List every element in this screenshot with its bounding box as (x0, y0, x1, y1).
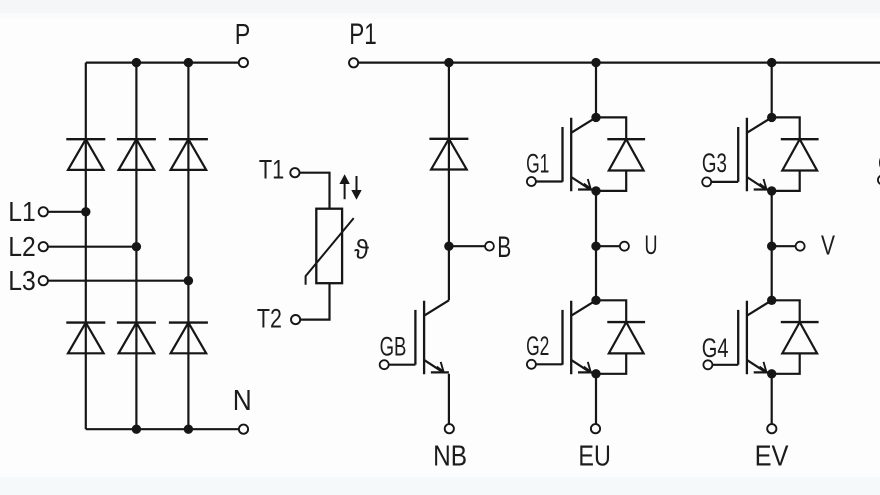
diode D6 (169, 323, 208, 354)
label L2 (8, 231, 36, 262)
junction node U (591, 242, 600, 251)
label EU (578, 440, 610, 472)
wire G4 gate (712, 364, 738, 366)
wire rectifier column 1 (85, 63, 87, 430)
label R1 theta (354, 234, 369, 264)
svg-text:P1: P1 (349, 18, 377, 51)
wire rectifier column 2 (135, 63, 137, 430)
wire G3 emitter to G4 collector (771, 191, 773, 300)
arrow down (351, 176, 361, 200)
label G2 (526, 331, 549, 361)
junction G4 collector (767, 296, 776, 305)
wire node U (596, 245, 620, 247)
wire rectifier column 3 (187, 63, 189, 430)
wire rail to G3 collector (771, 63, 773, 118)
label G4 (702, 333, 729, 363)
svg-text:B: B (497, 231, 511, 264)
junction G2 collector (591, 296, 600, 305)
transistor QB (415, 300, 449, 374)
svg-text:L1: L1 (8, 196, 36, 227)
label L3 (8, 265, 36, 296)
label G1 (526, 148, 549, 178)
diode D1F freewheel (596, 117, 645, 190)
terminal N (239, 425, 248, 434)
wire P rail (86, 61, 239, 63)
terminal G1 (527, 177, 536, 186)
label G5 (partial) (878, 148, 880, 178)
diode D1 (66, 139, 105, 170)
label T1 (259, 155, 284, 185)
svg-text:G4: G4 (702, 333, 729, 363)
junction top rail col2 (132, 58, 141, 67)
label P1 (349, 18, 377, 51)
terminal G5 (partial) (878, 175, 880, 184)
svg-text:G1: G1 (526, 148, 549, 178)
terminal NB (445, 424, 454, 433)
svg-text:ϑ: ϑ (354, 234, 369, 264)
junction L3 node (184, 276, 193, 285)
junction G1 collector (591, 113, 600, 122)
svg-text:T2: T2 (257, 304, 282, 334)
svg-text:G2: G2 (526, 331, 549, 361)
svg-text:L3: L3 (8, 265, 36, 296)
wire brake to IGBT (448, 246, 450, 300)
diode D3F freewheel (772, 117, 819, 190)
wire L2 (48, 246, 136, 248)
diode D4 (66, 323, 105, 354)
junction P1 rail brake (444, 58, 453, 67)
svg-text:N: N (233, 385, 252, 417)
wire G4 emitter to EV (771, 374, 773, 424)
junction P1 rail U leg (591, 58, 600, 67)
thermistor R1 body (316, 209, 342, 284)
label G3 (702, 148, 727, 178)
wire N rail (86, 428, 239, 430)
wire thermistor to T2 (300, 283, 329, 319)
svg-text:L2: L2 (8, 231, 36, 262)
svg-text:NB: NB (433, 440, 467, 472)
diode D2F freewheel (596, 300, 645, 374)
wire G2 gate (536, 363, 563, 365)
junction G2 emitter (591, 369, 600, 378)
diode D2 (117, 139, 156, 170)
terminal L2 (39, 242, 48, 251)
junction P1 rail V leg (767, 58, 776, 67)
terminal G4 (703, 360, 712, 369)
terminal L3 (39, 276, 48, 285)
junction G3 emitter (767, 186, 776, 195)
junction top rail col3 (184, 58, 193, 67)
wire brake collector (448, 63, 450, 247)
label N (233, 385, 252, 417)
svg-text:EV: EV (755, 440, 789, 472)
transistor Q3 (G3) (738, 117, 772, 191)
label V (821, 230, 835, 261)
svg-text:EU: EU (578, 440, 610, 472)
wire node B (449, 245, 485, 247)
label NB (433, 440, 467, 472)
wire G1 emitter to G2 collector (595, 191, 597, 300)
terminal P1 (349, 58, 358, 67)
thermistor R1 diagonal (306, 218, 354, 285)
terminal V (796, 242, 805, 251)
wire L1 (48, 211, 86, 213)
diode D3 (169, 139, 208, 170)
terminal L1 (39, 207, 48, 216)
label B (497, 231, 511, 264)
terminal T2 (291, 315, 300, 324)
label U (645, 230, 658, 260)
label T2 (257, 304, 282, 334)
terminal P (239, 58, 248, 67)
terminal G2 (527, 360, 536, 369)
junction G1 emitter (591, 186, 600, 195)
junction G4 emitter (767, 369, 776, 378)
junction bottom rail col2 (132, 425, 141, 434)
terminal GB (380, 360, 389, 369)
wire G1 gate (536, 180, 563, 182)
wire P1 rail (358, 61, 880, 63)
label GB (380, 331, 407, 361)
transistor Q4 (G4) (738, 300, 772, 374)
wire emitter to NB (448, 374, 450, 424)
wire GB gate (389, 364, 416, 366)
junction bottom rail col3 (184, 425, 193, 434)
terminal EU (591, 424, 600, 433)
terminal EV (767, 424, 776, 433)
svg-text:G3: G3 (702, 148, 727, 178)
diode D7 brake (429, 139, 468, 170)
junction L1 node (81, 207, 90, 216)
transistor Q1 (G1) (563, 117, 597, 191)
label L1 (8, 196, 36, 227)
junction L2 node (132, 242, 141, 251)
terminal G3 (702, 177, 711, 186)
wire T1 to thermistor (300, 173, 330, 209)
diode D5 (117, 323, 156, 354)
junction node B (444, 242, 453, 251)
svg-text:T1: T1 (259, 155, 284, 185)
terminal T1 (290, 168, 299, 177)
wire rail to G1 collector (595, 63, 597, 118)
transistor Q2 (G2) (563, 300, 597, 374)
wire G3 gate (711, 181, 738, 183)
diode D4F freewheel (772, 300, 819, 374)
svg-text:U: U (645, 230, 658, 260)
arrow up (339, 174, 349, 199)
label EV (755, 440, 789, 472)
terminal U (620, 242, 629, 251)
wire node V (772, 245, 796, 247)
label P (235, 19, 251, 51)
wire G2 emitter to EU (595, 374, 597, 424)
terminal B (485, 242, 494, 251)
svg-text:P: P (235, 19, 251, 51)
junction G3 collector (767, 113, 776, 122)
svg-text:GB: GB (380, 331, 407, 361)
junction node V (767, 242, 776, 251)
svg-text:V: V (821, 230, 835, 261)
wire L3 (48, 280, 189, 282)
